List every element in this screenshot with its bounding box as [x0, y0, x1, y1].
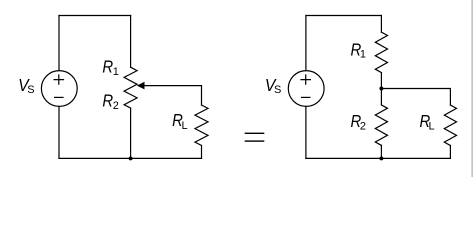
equals sign between circuits	[245, 133, 265, 134]
wiper arrow head (left potentiometer)	[137, 82, 145, 90]
wire: node A to RL (right)	[381, 89, 450, 106]
page edge line (right border)	[472, 0, 473, 177]
wire: potentiometer top lead	[130, 16, 132, 68]
junction dot: right circuit bottom node	[379, 156, 383, 160]
resistor RL (left, zigzag)	[195, 105, 208, 146]
svg-text:2: 2	[360, 120, 366, 132]
wire: R1 top lead (right)	[380, 16, 382, 33]
minus sign of VS (left)	[55, 96, 63, 98]
wire: left circuit left branch upper	[58, 16, 60, 71]
wire: RL bottom lead (right)	[449, 146, 451, 159]
wire: left circuit top wire	[59, 15, 131, 17]
wire: right circuit left branch lower	[305, 106, 307, 158]
wire: left circuit bottom wire	[59, 157, 202, 159]
label R1 (left)	[102, 58, 119, 78]
wire: R1 bottom lead to node A	[380, 73, 382, 89]
svg-text:R: R	[102, 58, 113, 77]
wire: RL bottom lead (left)	[201, 146, 203, 159]
plus sign of VS (left)	[54, 75, 63, 84]
wire: left circuit left branch lower	[58, 106, 60, 158]
wire: right circuit left branch upper	[305, 16, 307, 71]
wire: right circuit top wire	[306, 15, 382, 17]
label RL (left)	[172, 111, 188, 132]
svg-text:1: 1	[113, 66, 119, 78]
plus sign of VS (right)	[301, 75, 310, 84]
label R2 (right)	[351, 112, 367, 132]
wire: right circuit bottom wire	[306, 157, 451, 159]
wire: R2 bottom lead (right)	[380, 145, 382, 158]
junction dot: left circuit bottom node	[129, 156, 133, 160]
voltage source VS (right)	[288, 71, 324, 107]
label VS (left)	[18, 75, 34, 96]
label VS (right)	[265, 75, 281, 96]
resistor RL (right, zigzag)	[444, 105, 456, 146]
svg-text:2: 2	[113, 100, 119, 112]
svg-text:S: S	[27, 84, 34, 96]
wire: wiper to RL (left)	[143, 86, 202, 105]
label RL (right)	[420, 112, 435, 133]
label R2 (left)	[102, 91, 119, 111]
minus sign of VS (right)	[302, 96, 310, 98]
svg-text:L: L	[429, 121, 435, 133]
resistor R2 (right, zigzag)	[375, 105, 387, 145]
svg-text:1: 1	[360, 48, 366, 60]
svg-text:R: R	[102, 91, 113, 110]
node A junction dot (right circuit mid node)	[379, 87, 383, 91]
label R1 (right)	[351, 40, 367, 60]
wire: potentiometer bottom lead	[130, 108, 132, 158]
potentiometer body R1/R2 (zigzag)	[124, 67, 137, 108]
voltage source VS (left)	[41, 71, 77, 107]
wire: R2 top lead (right)	[380, 89, 382, 105]
svg-text:S: S	[274, 84, 281, 96]
svg-text:L: L	[182, 120, 188, 132]
resistor R1 (right, zigzag)	[375, 32, 387, 73]
